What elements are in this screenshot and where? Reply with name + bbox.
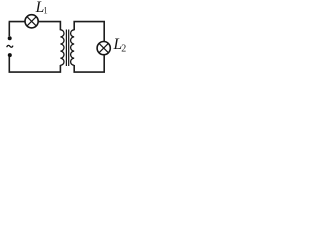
svg-text:1: 1 xyxy=(43,5,48,15)
source bottom terminal dot xyxy=(8,53,12,57)
lamp L2 xyxy=(97,42,110,55)
lamp L1 xyxy=(25,15,38,28)
wire: secondary top stub and top-right horizontal xyxy=(74,22,104,41)
label L2 xyxy=(113,36,127,54)
background xyxy=(0,0,129,86)
transformer secondary winding xyxy=(71,30,75,66)
wire: left vertical from top corner down to source top terminal xyxy=(8,22,10,36)
wire: primary bottom stub and bottom-left horizontal xyxy=(9,57,60,72)
AC source tilde xyxy=(7,45,13,47)
transformer primary winding xyxy=(60,30,64,66)
wire: lamp L2 down, bottom-right horizontal, secondary bottom stub xyxy=(74,55,104,72)
transformer core (two lines) xyxy=(65,30,67,67)
wire: lamp L1 to transformer primary top stub xyxy=(38,22,60,31)
svg-text:2: 2 xyxy=(121,44,126,55)
wire: top-left horizontal to lamp L1 xyxy=(9,21,25,23)
label L1 xyxy=(35,0,48,16)
source top terminal dot xyxy=(8,36,12,40)
